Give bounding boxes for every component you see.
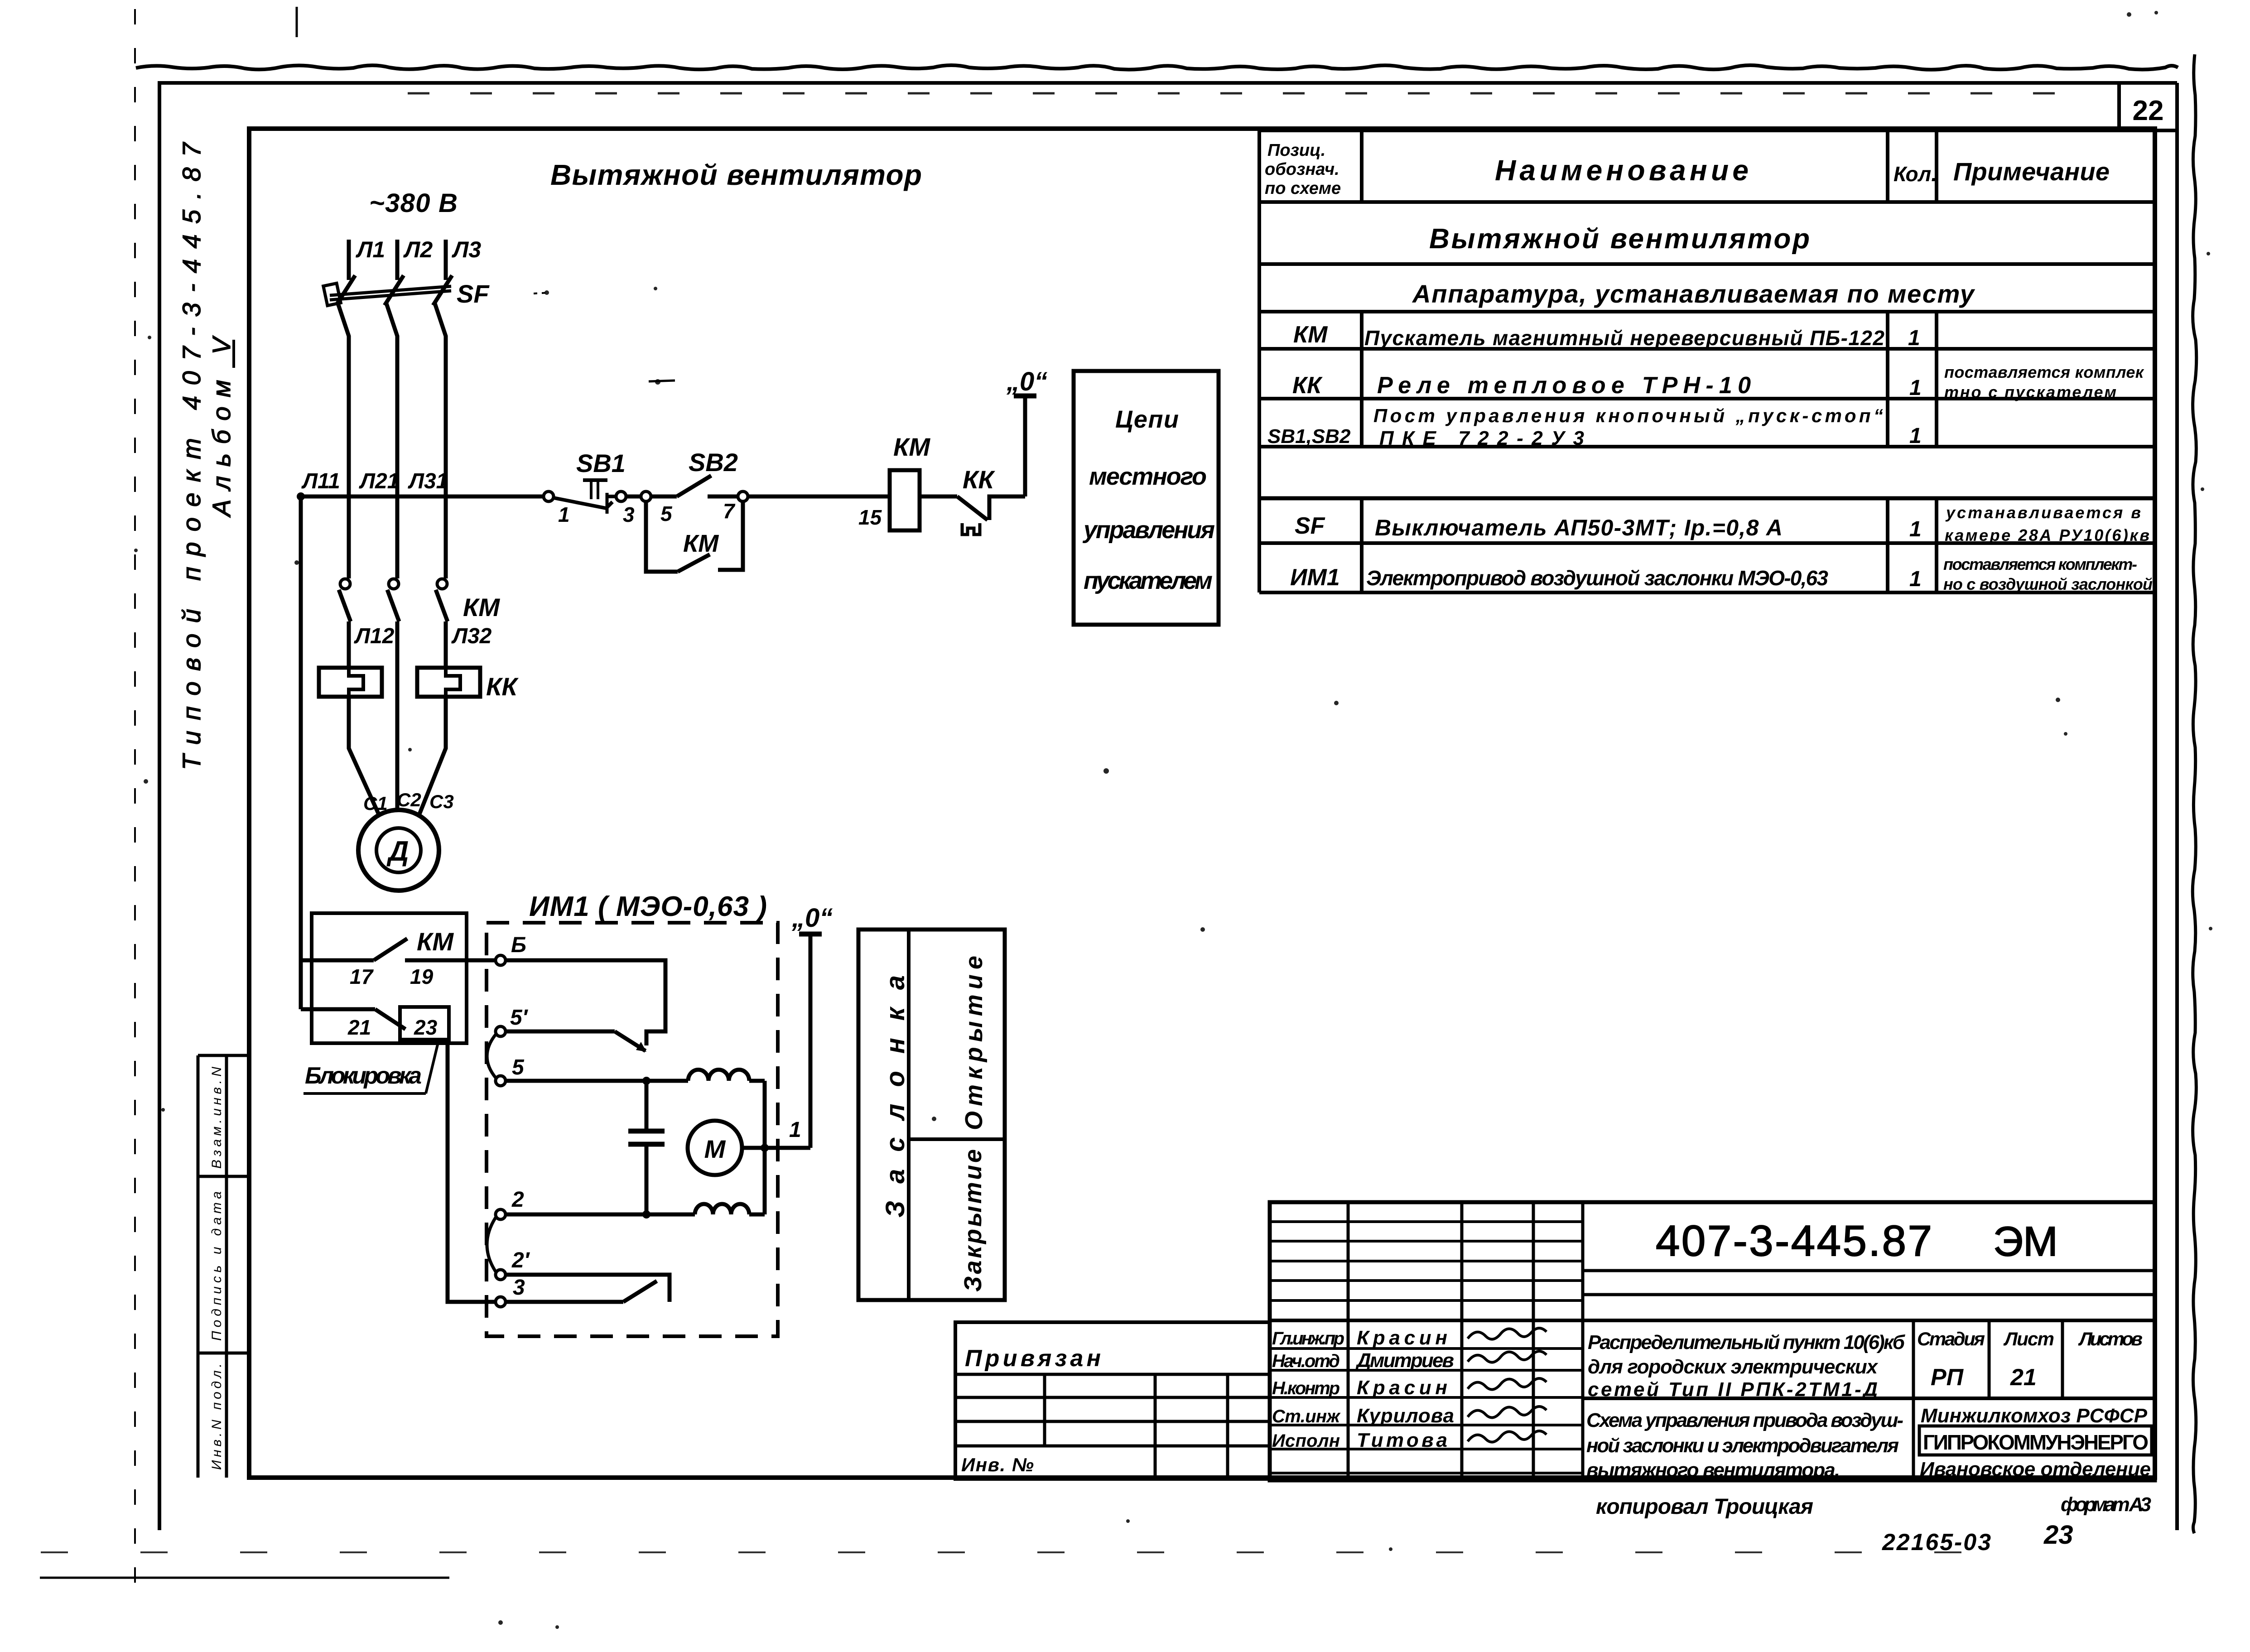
svg-text:Л31: Л31: [408, 469, 448, 493]
wire terminal 5 to winding: [506, 1079, 688, 1083]
svg-text:3: 3: [513, 1276, 525, 1300]
svg-text:1: 1: [1909, 376, 1922, 400]
svg-text:поставляется комплек: поставляется комплек: [1944, 363, 2144, 381]
svg-text:Кол.: Кол.: [1893, 162, 1937, 186]
svg-text:КК: КК: [486, 672, 519, 701]
svg-text:SB2: SB2: [689, 448, 738, 477]
svg-text:5: 5: [512, 1055, 525, 1079]
svg-text:Вытяжной вентилятор: Вытяжной вентилятор: [1429, 223, 1810, 255]
wire node 1 out to 0 line: [765, 1146, 810, 1150]
svg-text:21: 21: [2010, 1364, 2037, 1391]
svg-text:Л2: Л2: [403, 237, 433, 262]
svg-text:обознач.: обознач.: [1265, 160, 1339, 179]
svg-text:формат А3: формат А3: [2061, 1493, 2151, 1516]
wire phase line Л2 middle: [395, 336, 400, 578]
node terminal 5prime: [496, 1026, 506, 1036]
contactor KM holding contact: [646, 501, 678, 572]
wire outer frame top: [158, 81, 2177, 85]
svg-text:Листов: Листов: [2078, 1328, 2143, 1349]
svg-text:поставляется комплект-: поставляется комплект-: [1943, 555, 2137, 573]
node terminal 2prime: [496, 1270, 506, 1280]
wire outer frame left: [158, 83, 161, 1530]
svg-text:Л21: Л21: [359, 469, 399, 493]
wire phase line Л3 middle: [444, 336, 448, 578]
wire right wavy page edge: [2192, 54, 2197, 1533]
wire phase line Л3 top: [444, 240, 448, 280]
wire motor leads converging: [349, 697, 380, 816]
node terminal Б: [496, 955, 506, 965]
node title block signatures: [1468, 1328, 1547, 1339]
svg-text:Л11: Л11: [301, 469, 340, 493]
svg-text:Д: Д: [386, 836, 409, 867]
svg-text:Закрытие: Закрытие: [959, 1149, 987, 1292]
svg-text:С2: С2: [397, 789, 421, 810]
svg-text:КК: КК: [963, 465, 995, 494]
svg-text:Распределительный пункт 10(6)к: Распределительный пункт 10(6)кб: [1588, 1331, 1906, 1353]
wire control tap vertical: [299, 496, 303, 1009]
svg-text:1: 1: [1909, 424, 1922, 448]
svg-text:17: 17: [350, 965, 374, 988]
svg-text:Наименование: Наименование: [1495, 154, 1749, 187]
svg-text:Электропривод воздушной заслон: Электропривод воздушной заслонки МЭО-0,6…: [1366, 566, 1828, 590]
svg-text:Л32: Л32: [451, 624, 492, 648]
svg-text:1: 1: [1909, 517, 1922, 541]
svg-text:по схеме: по схеме: [1265, 179, 1341, 198]
svg-text:Цепи: Цепи: [1115, 406, 1179, 433]
svg-text:для городских электрических: для городских электрических: [1588, 1356, 1879, 1378]
svg-text:SB1,SB2: SB1,SB2: [1267, 425, 1351, 448]
svg-text:1: 1: [558, 503, 570, 526]
wire terminal 3 with limit switch blade: [506, 1300, 623, 1304]
node actuator ИМ1 dashed enclosure: [487, 923, 778, 1336]
svg-text:19: 19: [410, 965, 434, 988]
svg-text:КМ: КМ: [683, 530, 719, 557]
wire from Б to limit switch: [506, 960, 665, 1045]
svg-text:Схема управления привода возду: Схема управления привода воздуш-: [1586, 1409, 1903, 1431]
node control circuit 0 terminal: [1023, 396, 1027, 496]
svg-text:22165-03: 22165-03: [1882, 1529, 1991, 1556]
svg-text:ГИПРОКОММУНЭНЕРГО: ГИПРОКОММУНЭНЕРГО: [1923, 1430, 2149, 1454]
svg-text:КМ: КМ: [893, 433, 930, 461]
svg-text:копировал Троицкая: копировал Троицкая: [1596, 1495, 1813, 1519]
svg-text:КМ: КМ: [1293, 322, 1328, 348]
node Привязан table: [955, 1322, 1270, 1479]
node terminal box 23: [400, 1007, 449, 1040]
svg-text:~380 В: ~380 В: [369, 188, 458, 218]
wire winding to node 1: [763, 1081, 767, 1214]
svg-text:1: 1: [789, 1118, 801, 1142]
push button SB1 stop: [544, 491, 554, 501]
svg-text:Л12: Л12: [354, 624, 395, 648]
svg-text:1: 1: [1908, 326, 1920, 350]
svg-text:3: 3: [623, 503, 635, 526]
svg-text:М: М: [704, 1135, 726, 1163]
wire bottom page dashed edge: [41, 1551, 2016, 1553]
svg-text:Нач.отд: Нач.отд: [1272, 1351, 1340, 1371]
svg-text:местного: местного: [1089, 463, 1207, 490]
limit switch blade 5prime: [506, 1030, 615, 1034]
svg-text:вытяжного вентилятора.: вытяжного вентилятора.: [1586, 1459, 1840, 1481]
svg-text:Н.контр: Н.контр: [1272, 1378, 1340, 1398]
svg-text:SF: SF: [1295, 513, 1325, 539]
svg-text:Б: Б: [511, 933, 526, 957]
svg-text:Курилова: Курилова: [1357, 1405, 1454, 1427]
inductor winding lower: [695, 1204, 749, 1214]
wire SB2 to coil KM: [748, 495, 890, 499]
node actuator 0 terminal: [809, 934, 813, 1148]
svg-text:Блокировка: Блокировка: [305, 1063, 422, 1089]
svg-text:Л1: Л1: [356, 237, 385, 262]
thermal relay KK heater 1: [319, 668, 382, 697]
wire inner drawing frame: [249, 129, 2155, 1478]
svg-text:Л3: Л3: [452, 237, 481, 262]
svg-text:SF: SF: [457, 279, 490, 308]
wire bottom-left page line: [40, 1577, 449, 1579]
svg-text:Ст.инж: Ст.инж: [1272, 1406, 1341, 1426]
svg-text:2′: 2′: [511, 1248, 530, 1272]
svg-text:ПКЕ 722-2У3: ПКЕ 722-2У3: [1379, 427, 1584, 449]
wire bracket 5prime-5: [487, 1035, 496, 1078]
svg-text:407-3-445.87: 407-3-445.87: [1656, 1217, 1932, 1265]
thermal relay KK heater 2: [417, 668, 480, 697]
svg-text:Лист: Лист: [2003, 1328, 2054, 1349]
thermal relay KK NC contact: [920, 495, 957, 499]
svg-text:„0“: „0“: [1006, 367, 1047, 396]
wire left dashed page edge: [134, 9, 136, 1585]
svg-text:SB1: SB1: [576, 449, 626, 477]
node terminal 3: [496, 1297, 506, 1307]
node scan specks: [544, 290, 549, 295]
svg-text:2: 2: [511, 1188, 524, 1212]
wire terminal 2 to winding: [506, 1213, 695, 1217]
svg-text:Выключатель АП50-3МТ; Iр.=0,8: Выключатель АП50-3МТ; Iр.=0,8 А: [1375, 515, 1783, 540]
wire phase line Л2 top: [395, 240, 400, 280]
svg-text:Вытяжной вентилятор: Вытяжной вентилятор: [550, 159, 922, 191]
wire phase line Л1 top: [347, 240, 351, 280]
motor Д induction motor: [358, 810, 439, 891]
wire faint dashed line under top border: [408, 92, 2084, 95]
switch SF circuit breaker: [330, 286, 451, 295]
contactor KM aux contact 21-23: [301, 1007, 375, 1011]
contactor KM aux contact 17-19: [301, 958, 374, 963]
svg-text:ЭМ: ЭМ: [1993, 1219, 2058, 1265]
wire phase drops to heaters: [347, 621, 351, 668]
svg-text:22: 22: [2133, 95, 2164, 126]
svg-text:КМ: КМ: [417, 927, 454, 956]
svg-text:Стадия: Стадия: [1917, 1328, 1985, 1349]
svg-text:21: 21: [347, 1016, 371, 1039]
node title block grid: [1270, 1202, 2155, 1480]
motor M actuator motor: [688, 1121, 742, 1175]
node terminal 5: [496, 1076, 506, 1086]
svg-text:С3: С3: [429, 791, 454, 812]
svg-text:сетей Тип II РПК-2ТМ1-Д: сетей Тип II РПК-2ТМ1-Д: [1588, 1378, 1878, 1401]
coil KM contactor coil: [890, 470, 920, 530]
svg-text:5: 5: [660, 502, 673, 525]
node box Цепи местного управления пускателем: [1074, 371, 1219, 625]
svg-text:Пускатель магнитный нереверсив: Пускатель магнитный нереверсивный ПБ-122: [1364, 326, 1884, 350]
svg-text:1: 1: [1909, 567, 1922, 591]
svg-text:Инв. №: Инв. №: [961, 1454, 1034, 1475]
svg-text:„0“: „0“: [791, 903, 833, 933]
svg-text:7: 7: [723, 499, 736, 523]
node component table grid: [1259, 129, 2155, 132]
capacitor C actuator phase-shift: [645, 1081, 649, 1130]
svg-text:Пост управления кнопочный „п: Пост управления кнопочный „пуск-стоп“: [1373, 405, 1883, 426]
svg-text:но с воздушной заслонкой: но с воздушной заслонкой: [1943, 575, 2153, 593]
wire leader to 23: [426, 1041, 438, 1093]
svg-text:ной заслонки и электродвигател: ной заслонки и электродвигателя: [1586, 1435, 1899, 1457]
svg-text:23: 23: [2043, 1520, 2073, 1550]
wire bracket 2-2prime: [487, 1218, 496, 1272]
svg-text:Ивановское отделение: Ивановское отделение: [1920, 1458, 2151, 1480]
node Заслонка table: [858, 930, 1005, 1300]
wire top wavy page border: [136, 65, 2178, 70]
contactor KM main contacts: [340, 579, 350, 589]
wire from 23 down to terminal 3: [448, 1040, 496, 1302]
wire underline under V: [232, 340, 235, 368]
wire top-left tick mark: [296, 7, 298, 37]
svg-text:Минжилкомхоз РСФСР: Минжилкомхоз РСФСР: [1921, 1405, 2148, 1427]
svg-text:Дмитриев: Дмитриев: [1355, 1349, 1454, 1372]
svg-text:5′: 5′: [510, 1006, 529, 1030]
inductor winding upper: [688, 1069, 749, 1081]
wire terminal 2prime jog down: [506, 1275, 670, 1302]
svg-text:РП: РП: [1931, 1364, 1964, 1391]
svg-text:23: 23: [414, 1016, 438, 1039]
svg-text:Гл.инж.пр: Гл.инж.пр: [1272, 1329, 1344, 1349]
node interlock box KM aux contacts: [312, 913, 467, 1043]
svg-text:управления: управления: [1082, 516, 1215, 544]
svg-text:Примечание: Примечание: [1953, 157, 2110, 186]
svg-text:КК: КК: [1292, 372, 1323, 399]
wire phase line Л1 middle: [347, 336, 351, 578]
svg-text:15: 15: [858, 506, 882, 529]
svg-text:Исполн: Исполн: [1272, 1431, 1340, 1451]
svg-text:КМ: КМ: [463, 593, 500, 621]
node terminal 2: [496, 1209, 506, 1219]
svg-text:ИМ1: ИМ1: [1290, 564, 1340, 591]
node left margin stamp boxes: [197, 1055, 200, 1478]
svg-text:Привязан: Привязан: [965, 1345, 1101, 1372]
wire control line horizontal: [301, 495, 544, 499]
push button SB2 start: [641, 491, 651, 501]
wire outer frame right: [2175, 83, 2179, 1530]
wire between SB1 and SB2: [626, 495, 641, 499]
node page number box 22: [2117, 83, 2121, 130]
svg-text:Позиц.: Позиц.: [1267, 141, 1325, 160]
svg-text:камере 28А РУ10(6)кв: камере 28А РУ10(6)кв: [1945, 526, 2149, 544]
svg-text:ИМ1 ( МЭО-0,63 ): ИМ1 ( МЭО-0,63 ): [529, 891, 767, 922]
svg-text:пускателем: пускателем: [1084, 567, 1213, 594]
